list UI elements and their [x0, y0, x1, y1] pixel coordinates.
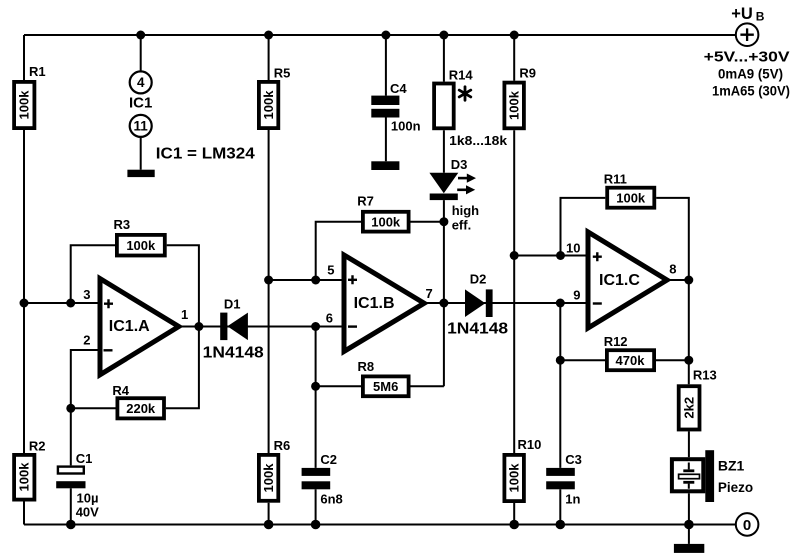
LED D3 emission arrows	[457, 178, 468, 190]
wire pin3 row	[24, 302, 100, 304]
svg-text:R9: R9	[519, 66, 536, 81]
svg-text:100k: 100k	[17, 90, 32, 120]
wire R4 left	[71, 407, 116, 409]
svg-text:R3: R3	[114, 217, 131, 232]
LED D3	[429, 157, 467, 200]
asterisk marker for R14	[459, 87, 471, 100]
svg-text:100k: 100k	[126, 238, 156, 253]
wire R14/D3 column	[443, 35, 445, 386]
wire R7 left branch	[316, 222, 361, 280]
svg-text:100k: 100k	[371, 214, 401, 229]
svg-text:1k8...18k: 1k8...18k	[449, 133, 508, 148]
svg-text:40V: 40V	[76, 504, 99, 519]
wire IC1.A output row through D1 to pin6	[179, 326, 344, 328]
svg-text:6: 6	[326, 311, 333, 326]
node R5-R6 / pin5	[264, 276, 273, 285]
resistor R3	[114, 217, 165, 256]
svg-text:IC1: IC1	[129, 95, 152, 112]
op-amp IC1.B triangle	[344, 255, 424, 351]
svg-text:0mA9 (5V): 0mA9 (5V)	[718, 66, 783, 81]
wire R8 right	[411, 385, 444, 387]
wire bottom ground rail	[24, 524, 735, 526]
svg-text:100k: 100k	[507, 90, 522, 120]
wire R11 left branch	[561, 198, 606, 256]
svg-text:5M6: 5M6	[373, 379, 398, 394]
op-amp IC1.A minus input mark	[104, 349, 113, 351]
wire C2 bottom	[315, 489, 317, 524]
svg-text:R2: R2	[29, 439, 46, 454]
capacitor C2	[302, 452, 343, 507]
wire R5/R6 column	[268, 35, 270, 525]
buzzer BZ1 piezo	[672, 450, 753, 502]
ground symbol under C4	[371, 161, 399, 170]
svg-text:R10: R10	[518, 437, 542, 452]
svg-text:D3: D3	[451, 157, 468, 172]
svg-text:4: 4	[137, 75, 145, 90]
node top rail / R14	[439, 31, 448, 40]
wire pin2 row to C1	[71, 350, 100, 465]
svg-text:5: 5	[327, 263, 334, 278]
resistor R13	[679, 368, 717, 430]
svg-text:IC1.B: IC1.B	[354, 295, 395, 312]
svg-text:Piezo: Piezo	[718, 480, 753, 495]
svg-text:R7: R7	[357, 194, 374, 209]
diode D2 (pointing right, cathode bar right)	[447, 272, 508, 338]
wire top supply rail	[24, 34, 736, 36]
node R3 left / pin3	[66, 299, 75, 308]
node IC1.B output	[439, 299, 448, 308]
svg-text:100k: 100k	[261, 463, 276, 493]
wire left rail (R1/R2 column)	[23, 35, 25, 525]
svg-text:BZ1: BZ1	[718, 458, 745, 474]
IC1 pin 4 circle	[130, 71, 152, 93]
capacitor C4	[371, 81, 420, 134]
op-amp IC1.C plus input mark	[593, 252, 602, 261]
svg-text:220k: 220k	[126, 401, 156, 416]
svg-text:B: B	[756, 9, 765, 23]
capacitor C1 (polarized)	[56, 451, 99, 519]
wire IC1.B output row through D2 to pin9	[424, 302, 588, 304]
svg-text:0: 0	[743, 517, 751, 534]
wire R3 left branch	[71, 245, 115, 303]
node pin6	[311, 322, 320, 331]
node R7 right / LED column	[439, 217, 448, 226]
svg-text:C2: C2	[320, 452, 337, 467]
wire ground stub below rail	[688, 525, 690, 544]
node R7 left / pin5	[311, 276, 320, 285]
svg-text:R12: R12	[604, 334, 628, 349]
wire IC1.C output row	[667, 279, 689, 281]
svg-text:100k: 100k	[17, 462, 32, 492]
resistor R2	[14, 439, 45, 500]
svg-text:3: 3	[83, 287, 90, 302]
svg-text:470k: 470k	[616, 353, 646, 368]
op-amp IC1.A plus input mark	[104, 299, 113, 308]
wire pin6 column down to C2	[315, 327, 317, 468]
node top rail / C4	[381, 31, 390, 40]
node feedback A / output	[194, 322, 203, 331]
node bottom rail / C1	[66, 520, 76, 530]
resistor R8	[358, 359, 409, 396]
svg-text:1mA65 (30V): 1mA65 (30V)	[712, 83, 790, 98]
svg-text:R13: R13	[693, 368, 717, 383]
wire R7 right	[411, 221, 444, 223]
svg-text:R14: R14	[449, 68, 474, 83]
svg-text:7: 7	[426, 286, 433, 301]
svg-text:100n: 100n	[391, 119, 421, 134]
svg-text:8: 8	[669, 262, 676, 277]
terminal 0 (ground)	[736, 513, 759, 536]
resistor R10	[504, 437, 541, 501]
resistor R9	[504, 66, 536, 129]
svg-text:high: high	[452, 203, 479, 218]
svg-text:2: 2	[83, 333, 90, 348]
node R12 left	[556, 356, 565, 365]
svg-text:R4: R4	[112, 383, 129, 398]
resistor R7	[357, 194, 408, 232]
node IC1.C output	[684, 276, 693, 285]
svg-text:eff.: eff.	[452, 218, 472, 233]
svg-text:1: 1	[181, 307, 188, 322]
svg-text:6n8: 6n8	[320, 492, 342, 507]
svg-text:+U: +U	[731, 5, 753, 23]
svg-text:9: 9	[573, 288, 580, 303]
resistor R6	[259, 438, 290, 501]
resistor R1	[14, 64, 46, 128]
wire R13 to BZ1	[688, 431, 690, 457]
wire IC1 pin4 stub	[140, 35, 142, 71]
wire R9/R10 column	[513, 35, 515, 525]
svg-text:C4: C4	[390, 81, 407, 96]
resistor R11	[604, 172, 655, 208]
node R11 left / pin10	[556, 251, 565, 260]
op-amp IC1.B minus input mark	[348, 325, 357, 327]
diode D1 (cathode bar left, pointing left)	[203, 297, 264, 362]
svg-text:10: 10	[566, 241, 580, 256]
svg-text:C3: C3	[565, 452, 582, 467]
wire pin9 column down to C3	[559, 303, 561, 468]
wire C3 bottom	[559, 489, 561, 524]
node top rail / R9	[510, 31, 519, 40]
node pin9	[556, 299, 565, 308]
wire pin10 row	[514, 255, 588, 257]
node top rail / R5	[264, 31, 273, 40]
node bottom rail / C3	[556, 520, 566, 530]
wire R8 left	[316, 385, 361, 387]
terminal +UB	[736, 23, 759, 46]
node top rail / IC1 pin4	[136, 31, 145, 40]
svg-text:1N4148: 1N4148	[203, 345, 264, 362]
wire R12 left	[560, 359, 605, 361]
capacitor C3	[546, 452, 582, 507]
node bottom rail / C2	[311, 520, 321, 530]
node R8 left	[311, 382, 320, 391]
svg-text:+5V...+30V: +5V...+30V	[704, 49, 790, 66]
resistor R12	[604, 334, 654, 370]
svg-text:R1: R1	[29, 64, 46, 79]
svg-text:100k: 100k	[261, 90, 276, 120]
svg-text:D1: D1	[224, 297, 241, 312]
svg-text:R8: R8	[358, 359, 375, 374]
svg-text:100k: 100k	[507, 463, 522, 493]
svg-text:2k2: 2k2	[682, 397, 697, 419]
node R12 right / output column	[684, 356, 693, 365]
op-amp IC1.B plus input mark	[348, 275, 357, 284]
svg-text:11: 11	[134, 119, 149, 134]
ground symbol under IC1 pin 11	[127, 170, 154, 177]
IC1 pin 11 circle	[130, 115, 152, 137]
svg-text:1N4148: 1N4148	[447, 320, 508, 337]
svg-text:IC1 = LM324: IC1 = LM324	[156, 146, 255, 163]
svg-text:D2: D2	[470, 272, 487, 287]
node bottom rail / BZ1	[684, 520, 694, 530]
svg-text:100k: 100k	[616, 191, 646, 206]
wire C4 column	[385, 35, 387, 161]
svg-text:R5: R5	[274, 66, 291, 81]
svg-text:IC1.A: IC1.A	[109, 318, 150, 335]
wire C1 bottom	[70, 488, 72, 524]
wire R11 right down to R13	[656, 198, 689, 384]
wire R12 right	[656, 359, 689, 361]
node bottom rail / R10	[509, 520, 519, 530]
node R9-R10 / pin10	[510, 251, 519, 260]
node R4 left / pin2 column	[66, 404, 75, 413]
op-amp IC1.A triangle	[100, 279, 179, 375]
ground symbol under BZ1	[674, 544, 704, 553]
op-amp IC1.C triangle	[588, 232, 667, 328]
wire BZ1 bottom	[688, 493, 690, 524]
resistor R5	[259, 66, 291, 129]
wire R3 right to R4 right feedback	[166, 245, 199, 408]
svg-text:IC1.C: IC1.C	[599, 272, 640, 289]
resistor R4	[112, 383, 164, 418]
wire pin5 row	[269, 279, 344, 281]
svg-text:C1: C1	[76, 451, 93, 466]
op-amp IC1.C minus input mark	[593, 302, 602, 304]
svg-text:R6: R6	[274, 438, 291, 453]
node bottom rail / R6	[264, 520, 274, 530]
node left rail / pin3	[20, 299, 29, 308]
svg-text:R11: R11	[604, 172, 627, 187]
wire IC1 pin11 stub	[140, 137, 142, 170]
svg-text:1n: 1n	[565, 492, 580, 507]
resistor R14 (no internal value, marked with asterisk)	[434, 68, 473, 129]
